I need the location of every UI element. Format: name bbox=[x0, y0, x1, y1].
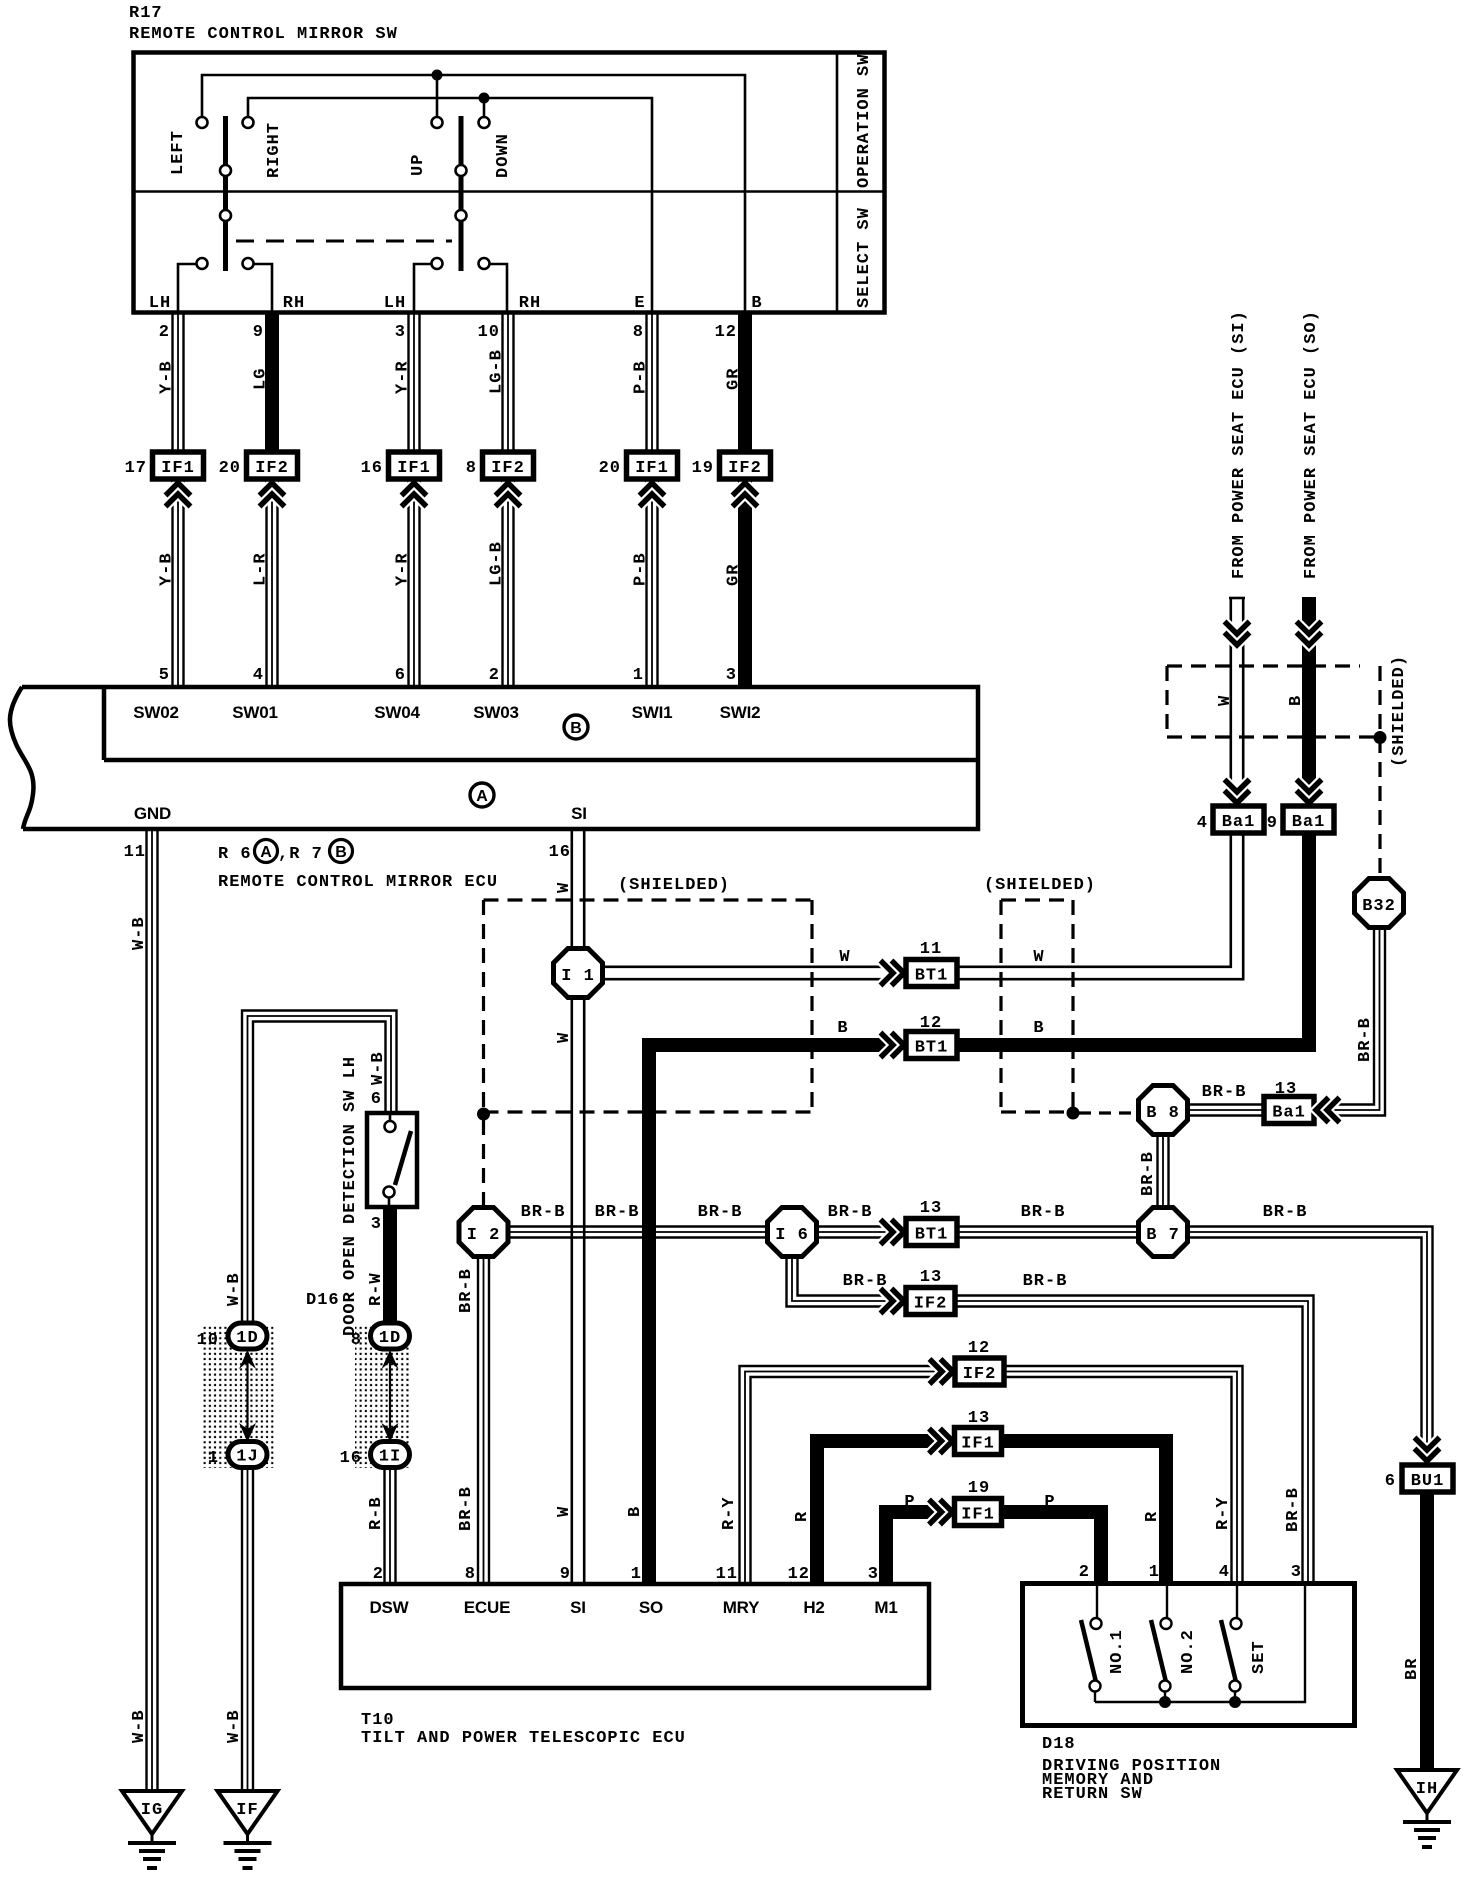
switch D18 driving position memory and return SW box bbox=[1023, 1584, 1355, 1805]
svg-text:T10: T10 bbox=[361, 1711, 395, 1730]
svg-text:W-B: W-B bbox=[225, 1272, 244, 1306]
svg-text:Ba1: Ba1 bbox=[1292, 813, 1326, 832]
svg-text:SWI1: SWI1 bbox=[632, 703, 673, 722]
connector BT1 pin 11 on W wire bbox=[839, 940, 1044, 987]
svg-text:Y-R: Y-R bbox=[394, 552, 413, 586]
svg-text:BR: BR bbox=[1403, 1658, 1422, 1680]
ECU pin name SW02 bbox=[133, 703, 179, 722]
svg-text:1I: 1I bbox=[379, 1448, 401, 1467]
svg-text:9: 9 bbox=[253, 323, 264, 342]
svg-text:IF2: IF2 bbox=[728, 459, 762, 478]
ECU pin name SW03 bbox=[473, 703, 519, 722]
svg-text:SW01: SW01 bbox=[232, 703, 278, 722]
wire R17 internal bus 2 (RIGHT/DOWN to E) bbox=[248, 98, 652, 312]
wire W-B GND pin 11 to ground IG bbox=[124, 829, 158, 1791]
wire BR-B from B32 to connector Ba1 pin 13 bbox=[1313, 929, 1385, 1116]
svg-text:SW03: SW03 bbox=[473, 703, 519, 722]
svg-text:13: 13 bbox=[920, 1268, 942, 1287]
ECU pin name SWI1 bbox=[632, 703, 673, 722]
svg-text:OPERATION SW: OPERATION SW bbox=[855, 54, 874, 188]
svg-text:3: 3 bbox=[1291, 1563, 1302, 1582]
wire BR-B from B8 down to B7 bbox=[1139, 1135, 1169, 1207]
wire BR-B from I2 to T10 ECUE pin 8 bbox=[457, 1257, 489, 1584]
ECU connector B circled bbox=[564, 715, 588, 739]
D18 pin numbers bbox=[1079, 1563, 1302, 1582]
svg-text:ECUE: ECUE bbox=[464, 1598, 510, 1617]
svg-text:RETURN SW: RETURN SW bbox=[1042, 1785, 1143, 1804]
shield dashed box right of BT1 bbox=[984, 876, 1096, 1112]
svg-text:W-B: W-B bbox=[369, 1051, 388, 1085]
svg-text:IF2: IF2 bbox=[491, 459, 525, 478]
svg-text:RIGHT: RIGHT bbox=[265, 122, 284, 178]
wire R from T10 H2 pin 12 via connector IF1 pin 13 to D18 pin 1 bbox=[793, 1441, 1166, 1584]
contact LH mirror 1 and wire to pin 2 bbox=[149, 258, 208, 313]
ECU pin name SW04 bbox=[374, 703, 420, 722]
svg-text:11: 11 bbox=[716, 1565, 738, 1584]
junction I1 octagon bbox=[554, 949, 603, 998]
svg-text:IG: IG bbox=[141, 1801, 163, 1820]
wire W from power seat ECU (SI) via connector Ba1 pin 4 to junction I1 bbox=[604, 310, 1249, 979]
T10 pin numbers bbox=[373, 1565, 879, 1584]
svg-text:B 7: B 7 bbox=[1146, 1226, 1180, 1245]
svg-text:4: 4 bbox=[1197, 814, 1208, 833]
svg-text:LH: LH bbox=[149, 294, 171, 313]
svg-text:(SHIELDED): (SHIELDED) bbox=[618, 876, 730, 895]
ECU T10 tilt and power telescopic ECU box bbox=[341, 1584, 929, 1748]
svg-text:BR-B: BR-B bbox=[828, 1203, 873, 1222]
svg-text:SI: SI bbox=[571, 804, 587, 823]
svg-text:W-B: W-B bbox=[130, 1709, 149, 1743]
svg-text:M1: M1 bbox=[874, 1598, 897, 1617]
svg-text:19: 19 bbox=[692, 459, 714, 478]
junction dot DOWN contact on bus 2 bbox=[479, 93, 490, 118]
svg-text:6: 6 bbox=[371, 1090, 382, 1109]
wire BR-B row from I2 to B7 via I6 and BT1 pin 13 bbox=[509, 1203, 1137, 1238]
wire W from ECU SI pin 16 through junction I1 to T10 SI pin 9 bbox=[549, 829, 585, 1584]
connector IF2 pin 19 bbox=[692, 452, 771, 507]
svg-text:5: 5 bbox=[159, 666, 170, 685]
connector BT1 pin 12 on B wire bbox=[837, 1014, 1044, 1059]
svg-text:FROM POWER SEAT ECU (SO): FROM POWER SEAT ECU (SO) bbox=[1302, 310, 1321, 579]
wire GR from connector IF2 to ECU pin 3 bbox=[725, 478, 746, 687]
svg-text:BR-B: BR-B bbox=[1139, 1151, 1158, 1196]
svg-text:Y-B: Y-B bbox=[158, 360, 177, 394]
connector IF2 pin 20 bbox=[219, 452, 298, 507]
svg-text:IF1: IF1 bbox=[961, 1435, 995, 1454]
svg-text:A: A bbox=[476, 788, 488, 805]
svg-text:3: 3 bbox=[726, 666, 737, 685]
svg-text:GR: GR bbox=[725, 564, 744, 586]
wire R-B from 1I to T10 DSW pin 2 bbox=[367, 1467, 396, 1584]
svg-text:8: 8 bbox=[351, 1331, 362, 1350]
contact RH mirror 2 and wire to pin 10 bbox=[479, 258, 542, 313]
svg-text:4: 4 bbox=[1219, 1563, 1230, 1582]
svg-text:Y-R: Y-R bbox=[394, 360, 413, 394]
svg-text:1D: 1D bbox=[236, 1329, 258, 1348]
svg-text:I 1: I 1 bbox=[561, 967, 595, 986]
svg-text:BT1: BT1 bbox=[915, 1039, 949, 1058]
junction I2 octagon bbox=[459, 1208, 508, 1257]
switch D18 NO.1 bbox=[1081, 1586, 1127, 1702]
svg-text:REMOTE CONTROL MIRROR SW: REMOTE CONTROL MIRROR SW bbox=[129, 25, 398, 44]
ECU designator text R6 A R7 B bbox=[218, 840, 498, 893]
node B label bbox=[751, 294, 762, 313]
svg-text:D18: D18 bbox=[1042, 1735, 1076, 1754]
svg-text:12: 12 bbox=[715, 323, 737, 342]
svg-text:Y-B: Y-B bbox=[158, 552, 177, 586]
contact DOWN bbox=[479, 117, 514, 178]
svg-text:6: 6 bbox=[1385, 1472, 1396, 1491]
select switch contacts on bar 2 bbox=[456, 165, 467, 221]
svg-text:H2: H2 bbox=[803, 1598, 824, 1617]
svg-text:2: 2 bbox=[373, 1565, 384, 1584]
svg-text:LH: LH bbox=[384, 294, 406, 313]
svg-text:1: 1 bbox=[208, 1449, 219, 1468]
connector IF1 pin 20 bbox=[599, 452, 678, 507]
svg-text:MRY: MRY bbox=[723, 1598, 760, 1617]
svg-text:BT1: BT1 bbox=[915, 1226, 949, 1245]
svg-text:20: 20 bbox=[219, 459, 241, 478]
svg-text:BR-B: BR-B bbox=[698, 1203, 743, 1222]
direction chevrons on B wire bbox=[1297, 622, 1322, 804]
svg-text:BR-B: BR-B bbox=[1021, 1203, 1066, 1222]
svg-text:SELECT SW: SELECT SW bbox=[855, 207, 874, 308]
svg-text:W: W bbox=[839, 948, 850, 967]
switch R17 box bbox=[134, 53, 885, 313]
wire BR-B from B7 to connector BU1 pin 6 bbox=[1189, 1203, 1433, 1459]
svg-text:16: 16 bbox=[340, 1449, 362, 1468]
svg-text:BU1: BU1 bbox=[1411, 1472, 1445, 1491]
connector Ba1 pin 4 bbox=[1197, 806, 1264, 833]
ground IF bbox=[218, 1791, 278, 1868]
svg-text:NO.2: NO.2 bbox=[1179, 1629, 1198, 1674]
svg-text:R 6: R 6 bbox=[218, 845, 252, 864]
svg-text:W-B: W-B bbox=[225, 1709, 244, 1743]
wire Y-B from R17 pin 2 to connector IF1 bbox=[158, 312, 184, 457]
mechanical link dashed bbox=[236, 240, 452, 243]
svg-text:SI: SI bbox=[570, 1598, 586, 1617]
D18 internal bus to pin 3 bbox=[1095, 1586, 1305, 1708]
svg-text:SET: SET bbox=[1250, 1640, 1269, 1674]
wire LG-B from R17 pin 10 to connector IF2 bbox=[478, 312, 514, 457]
svg-text:B 8: B 8 bbox=[1146, 1104, 1180, 1123]
svg-text:L-R: L-R bbox=[252, 552, 271, 586]
contact RH mirror 1 and wire to pin 9 bbox=[243, 258, 306, 313]
svg-text:R-W: R-W bbox=[367, 1272, 386, 1306]
junction B32 octagon with dashed shield lead bbox=[1355, 879, 1404, 928]
svg-text:W: W bbox=[1216, 695, 1235, 706]
svg-text:BR-B: BR-B bbox=[1263, 1203, 1308, 1222]
svg-text:IF2: IF2 bbox=[963, 1365, 997, 1384]
svg-text:P-B: P-B bbox=[632, 360, 651, 394]
switch D16 door open detection SW LH bbox=[306, 1056, 417, 1336]
svg-text:REMOTE CONTROL MIRROR ECU: REMOTE CONTROL MIRROR ECU bbox=[218, 873, 498, 892]
svg-text:BR-B: BR-B bbox=[1023, 1272, 1068, 1291]
svg-text:B: B bbox=[837, 1019, 848, 1038]
svg-text:R: R bbox=[793, 1511, 812, 1522]
svg-text:IF1: IF1 bbox=[961, 1506, 995, 1525]
svg-text:SW04: SW04 bbox=[374, 703, 420, 722]
ground IG bbox=[122, 1791, 182, 1868]
junction dot UP contact on bus 1 bbox=[432, 70, 443, 118]
connector Ba1 pin 9 bbox=[1267, 806, 1334, 833]
svg-text:SWI2: SWI2 bbox=[720, 703, 761, 722]
contact UP bbox=[409, 117, 443, 176]
svg-text:NO.1: NO.1 bbox=[1108, 1629, 1127, 1674]
connector 1D pin 8 bbox=[351, 1323, 410, 1350]
svg-text:GR: GR bbox=[725, 368, 744, 390]
svg-text:I 6: I 6 bbox=[775, 1226, 809, 1245]
svg-text:TILT AND POWER TELESCOPIC ECU: TILT AND POWER TELESCOPIC ECU bbox=[361, 1729, 686, 1748]
connector 1J pin 1 bbox=[208, 1442, 267, 1469]
shield dashed box around junction I1 bbox=[484, 876, 813, 1112]
svg-text:6: 6 bbox=[395, 666, 406, 685]
svg-text:1D: 1D bbox=[379, 1329, 401, 1348]
wire P-B from R17 pin 8 to connector IF1 bbox=[632, 312, 658, 457]
svg-text:12: 12 bbox=[968, 1339, 990, 1358]
wire R-W from D16 pin 3 to connector 1D pin 8 bbox=[367, 1207, 390, 1325]
svg-text:R17: R17 bbox=[129, 4, 163, 23]
svg-text:IF2: IF2 bbox=[255, 459, 289, 478]
svg-text:LG-B: LG-B bbox=[488, 541, 507, 586]
junction dot shield to B32 bbox=[1374, 731, 1387, 744]
switch D18 SET bbox=[1221, 1586, 1269, 1702]
svg-text:DOOR OPEN DETECTION SW LH: DOOR OPEN DETECTION SW LH bbox=[341, 1056, 360, 1336]
splice arrow left bbox=[239, 1350, 256, 1442]
shield dashed box around power seat wires bbox=[1167, 655, 1409, 877]
junction dot shield box 2 to B8 bbox=[1067, 1107, 1137, 1120]
wire R17 internal bus 1 (LEFT/UP to B) bbox=[202, 75, 745, 312]
svg-text:BR-B: BR-B bbox=[457, 1268, 476, 1313]
connector IF2 pin 8 bbox=[466, 452, 534, 507]
svg-text:1: 1 bbox=[1149, 1563, 1160, 1582]
svg-text:IF1: IF1 bbox=[397, 459, 431, 478]
svg-text:B: B bbox=[570, 720, 582, 737]
svg-text:UP: UP bbox=[409, 154, 428, 176]
svg-text:I 2: I 2 bbox=[467, 1226, 501, 1245]
node E label bbox=[634, 294, 645, 313]
ground IH bbox=[1397, 1770, 1457, 1847]
svg-text:(SHIELDED): (SHIELDED) bbox=[984, 876, 1096, 895]
svg-text:2: 2 bbox=[489, 666, 500, 685]
wire L-R from connector IF2 to ECU pin 4 bbox=[252, 478, 278, 687]
svg-text:BR-B: BR-B bbox=[1284, 1487, 1303, 1532]
svg-text:2: 2 bbox=[159, 323, 170, 342]
svg-text:3: 3 bbox=[371, 1215, 382, 1234]
wire W-B from connector 1D pin 10 up and over to D16 pin 6 bbox=[225, 1011, 397, 1326]
svg-text:LG: LG bbox=[252, 368, 271, 390]
wire R-Y from T10 MRY pin 11 via connector IF2 pin 12 to D18 pin 4 bbox=[720, 1366, 1243, 1584]
junction dot shield box 1 to I2 bbox=[477, 1108, 490, 1208]
svg-text:11: 11 bbox=[920, 940, 942, 959]
ECU pin name GND bbox=[134, 804, 171, 823]
contact RIGHT bbox=[243, 117, 285, 178]
svg-text:GND: GND bbox=[134, 804, 171, 823]
svg-text:P: P bbox=[1044, 1493, 1055, 1512]
svg-text:1J: 1J bbox=[236, 1448, 258, 1467]
svg-text:D16: D16 bbox=[306, 1291, 340, 1310]
svg-text:BR-B: BR-B bbox=[1356, 1017, 1375, 1062]
svg-text:DOWN: DOWN bbox=[494, 133, 513, 178]
wire W-B from 1J to ground IF bbox=[225, 1467, 253, 1791]
svg-text:B: B bbox=[1287, 695, 1306, 706]
wire BR-B from B8 to connector Ba1 pin 13 bbox=[1188, 1083, 1266, 1116]
svg-text:W: W bbox=[555, 1506, 574, 1517]
svg-text:SW02: SW02 bbox=[133, 703, 179, 722]
svg-text:9: 9 bbox=[560, 1565, 571, 1584]
svg-text:RH: RH bbox=[283, 294, 305, 313]
svg-text:2: 2 bbox=[1079, 1563, 1090, 1582]
svg-text:8: 8 bbox=[633, 323, 644, 342]
connector IF1 pin 16 bbox=[361, 452, 440, 507]
wire GR from R17 pin 12 to connector IF2 bbox=[715, 312, 745, 457]
svg-text:BR-B: BR-B bbox=[843, 1272, 888, 1291]
svg-text:R-B: R-B bbox=[367, 1496, 386, 1530]
svg-text:16: 16 bbox=[361, 459, 383, 478]
switch D18 NO.2 bbox=[1151, 1586, 1198, 1702]
select switch contacts on bar 1 bbox=[220, 165, 231, 221]
svg-text:B: B bbox=[626, 1506, 645, 1517]
svg-text:10: 10 bbox=[478, 323, 500, 342]
svg-text:BR-B: BR-B bbox=[595, 1203, 640, 1222]
svg-text:19: 19 bbox=[968, 1479, 990, 1498]
svg-text:17: 17 bbox=[125, 459, 147, 478]
svg-text:E: E bbox=[634, 294, 645, 313]
wire B from power seat ECU (SO) via connector Ba1 pin 9 to T10 SO pin 1 bbox=[626, 310, 1321, 1584]
wire BR-B from I6 via connector IF2 pin 13 to D18 pin 3 bbox=[787, 1256, 1314, 1584]
contact LH mirror 2 and wire to pin 3 bbox=[384, 258, 443, 313]
connector BT1 pin 13 bbox=[881, 1199, 958, 1246]
splice arrow right bbox=[382, 1350, 399, 1442]
svg-text:W: W bbox=[555, 882, 574, 893]
svg-text:IF2: IF2 bbox=[914, 1295, 948, 1314]
svg-text:4: 4 bbox=[253, 666, 264, 685]
operation switch pole bar 1 bbox=[223, 116, 228, 271]
svg-text:BR-B: BR-B bbox=[521, 1203, 566, 1222]
svg-text:Ba1: Ba1 bbox=[1222, 813, 1256, 832]
svg-text:16: 16 bbox=[549, 843, 571, 862]
junction B7 octagon bbox=[1139, 1208, 1188, 1257]
svg-text:1: 1 bbox=[631, 1565, 642, 1584]
junction I6 octagon bbox=[768, 1208, 817, 1257]
svg-text:B32: B32 bbox=[1362, 897, 1396, 916]
wire LG from R17 pin 9 to connector IF2 bbox=[252, 312, 273, 457]
operation switch pole bar 2 bbox=[459, 116, 464, 271]
wire P-B from connector IF1 to ECU pin 1 bbox=[632, 478, 658, 687]
svg-text:BT1: BT1 bbox=[915, 967, 949, 986]
svg-text:,R 7: ,R 7 bbox=[278, 845, 323, 864]
connector IF1 pin 17 bbox=[125, 452, 204, 507]
svg-text:R-Y: R-Y bbox=[720, 1496, 739, 1530]
svg-text:B: B bbox=[1033, 1019, 1044, 1038]
ECU connector A circled bbox=[470, 783, 494, 807]
shaded harness splice region left bbox=[202, 1324, 275, 1468]
svg-text:R: R bbox=[1143, 1511, 1162, 1522]
svg-text:W-B: W-B bbox=[130, 916, 149, 950]
svg-text:RH: RH bbox=[519, 294, 541, 313]
svg-text:LG-B: LG-B bbox=[488, 349, 507, 394]
connector IF1 pin 19 bbox=[929, 1479, 1002, 1526]
connector IF2 pin 12 bbox=[930, 1339, 1005, 1385]
svg-text:A: A bbox=[260, 844, 272, 861]
ECU pin name SWI2 bbox=[720, 703, 761, 722]
svg-text:DSW: DSW bbox=[369, 1598, 409, 1617]
switch block R17 title bbox=[129, 4, 398, 44]
svg-text:B: B bbox=[335, 844, 347, 861]
contact LEFT bbox=[169, 117, 208, 175]
svg-text:IF: IF bbox=[236, 1801, 258, 1820]
svg-text:3: 3 bbox=[395, 323, 406, 342]
wire BR from BU1 to ground IH bbox=[1403, 1491, 1427, 1770]
svg-text:BR-B: BR-B bbox=[457, 1486, 476, 1531]
svg-text:IH: IH bbox=[1416, 1780, 1438, 1799]
svg-text:IF1: IF1 bbox=[161, 459, 195, 478]
svg-text:10: 10 bbox=[197, 1331, 219, 1350]
svg-text:13: 13 bbox=[920, 1199, 942, 1218]
svg-text:W: W bbox=[1033, 948, 1044, 967]
ECU pin name SI bbox=[571, 804, 587, 823]
junction B8 octagon bbox=[1139, 1086, 1188, 1135]
svg-text:9: 9 bbox=[1267, 814, 1278, 833]
svg-text:12: 12 bbox=[788, 1565, 810, 1584]
wire LG-B from connector IF2 to ECU pin 2 bbox=[488, 478, 514, 687]
svg-text:SO: SO bbox=[639, 1598, 663, 1617]
svg-text:P: P bbox=[904, 1493, 915, 1512]
direction chevrons on W wire bbox=[1225, 622, 1250, 804]
wire Y-R from connector IF1 to ECU pin 6 bbox=[394, 478, 420, 687]
connector Ba1 pin 13 bbox=[1264, 1080, 1340, 1124]
wire Y-B from connector IF1 to ECU pin 5 bbox=[158, 478, 184, 687]
svg-text:FROM POWER SEAT ECU (SI): FROM POWER SEAT ECU (SI) bbox=[1230, 310, 1249, 579]
svg-text:8: 8 bbox=[466, 459, 477, 478]
connector IF2 pin 13 bbox=[881, 1268, 956, 1315]
connector IF1 pin 13 bbox=[929, 1409, 1002, 1455]
svg-text:BR-B: BR-B bbox=[1202, 1083, 1247, 1102]
svg-text:20: 20 bbox=[599, 459, 621, 478]
connector 1I pin 16 bbox=[340, 1442, 410, 1469]
svg-text:(SHIELDED): (SHIELDED) bbox=[1390, 655, 1409, 767]
svg-text:W: W bbox=[555, 1032, 574, 1043]
svg-text:8: 8 bbox=[465, 1565, 476, 1584]
ECU R6/R7 remote control mirror ECU box bbox=[10, 687, 978, 829]
svg-text:LEFT: LEFT bbox=[169, 130, 188, 175]
svg-text:R-Y: R-Y bbox=[1214, 1496, 1233, 1530]
shaded harness splice region right bbox=[355, 1324, 411, 1468]
connector 1D pin 10 bbox=[197, 1323, 267, 1350]
ECU pin name SW01 bbox=[232, 703, 278, 722]
svg-text:3: 3 bbox=[868, 1565, 879, 1584]
svg-text:B: B bbox=[751, 294, 762, 313]
svg-text:IF1: IF1 bbox=[635, 459, 669, 478]
svg-text:P-B: P-B bbox=[632, 552, 651, 586]
svg-text:Ba1: Ba1 bbox=[1272, 1104, 1306, 1123]
connector BU1 pin 6 bbox=[1385, 1438, 1453, 1493]
svg-text:11: 11 bbox=[124, 843, 146, 862]
wire Y-R from R17 pin 3 to connector IF1 bbox=[394, 312, 420, 457]
wire P from T10 M1 pin 3 via connector IF1 pin 19 to D18 pin 2 bbox=[886, 1493, 1101, 1584]
svg-text:1: 1 bbox=[633, 666, 644, 685]
